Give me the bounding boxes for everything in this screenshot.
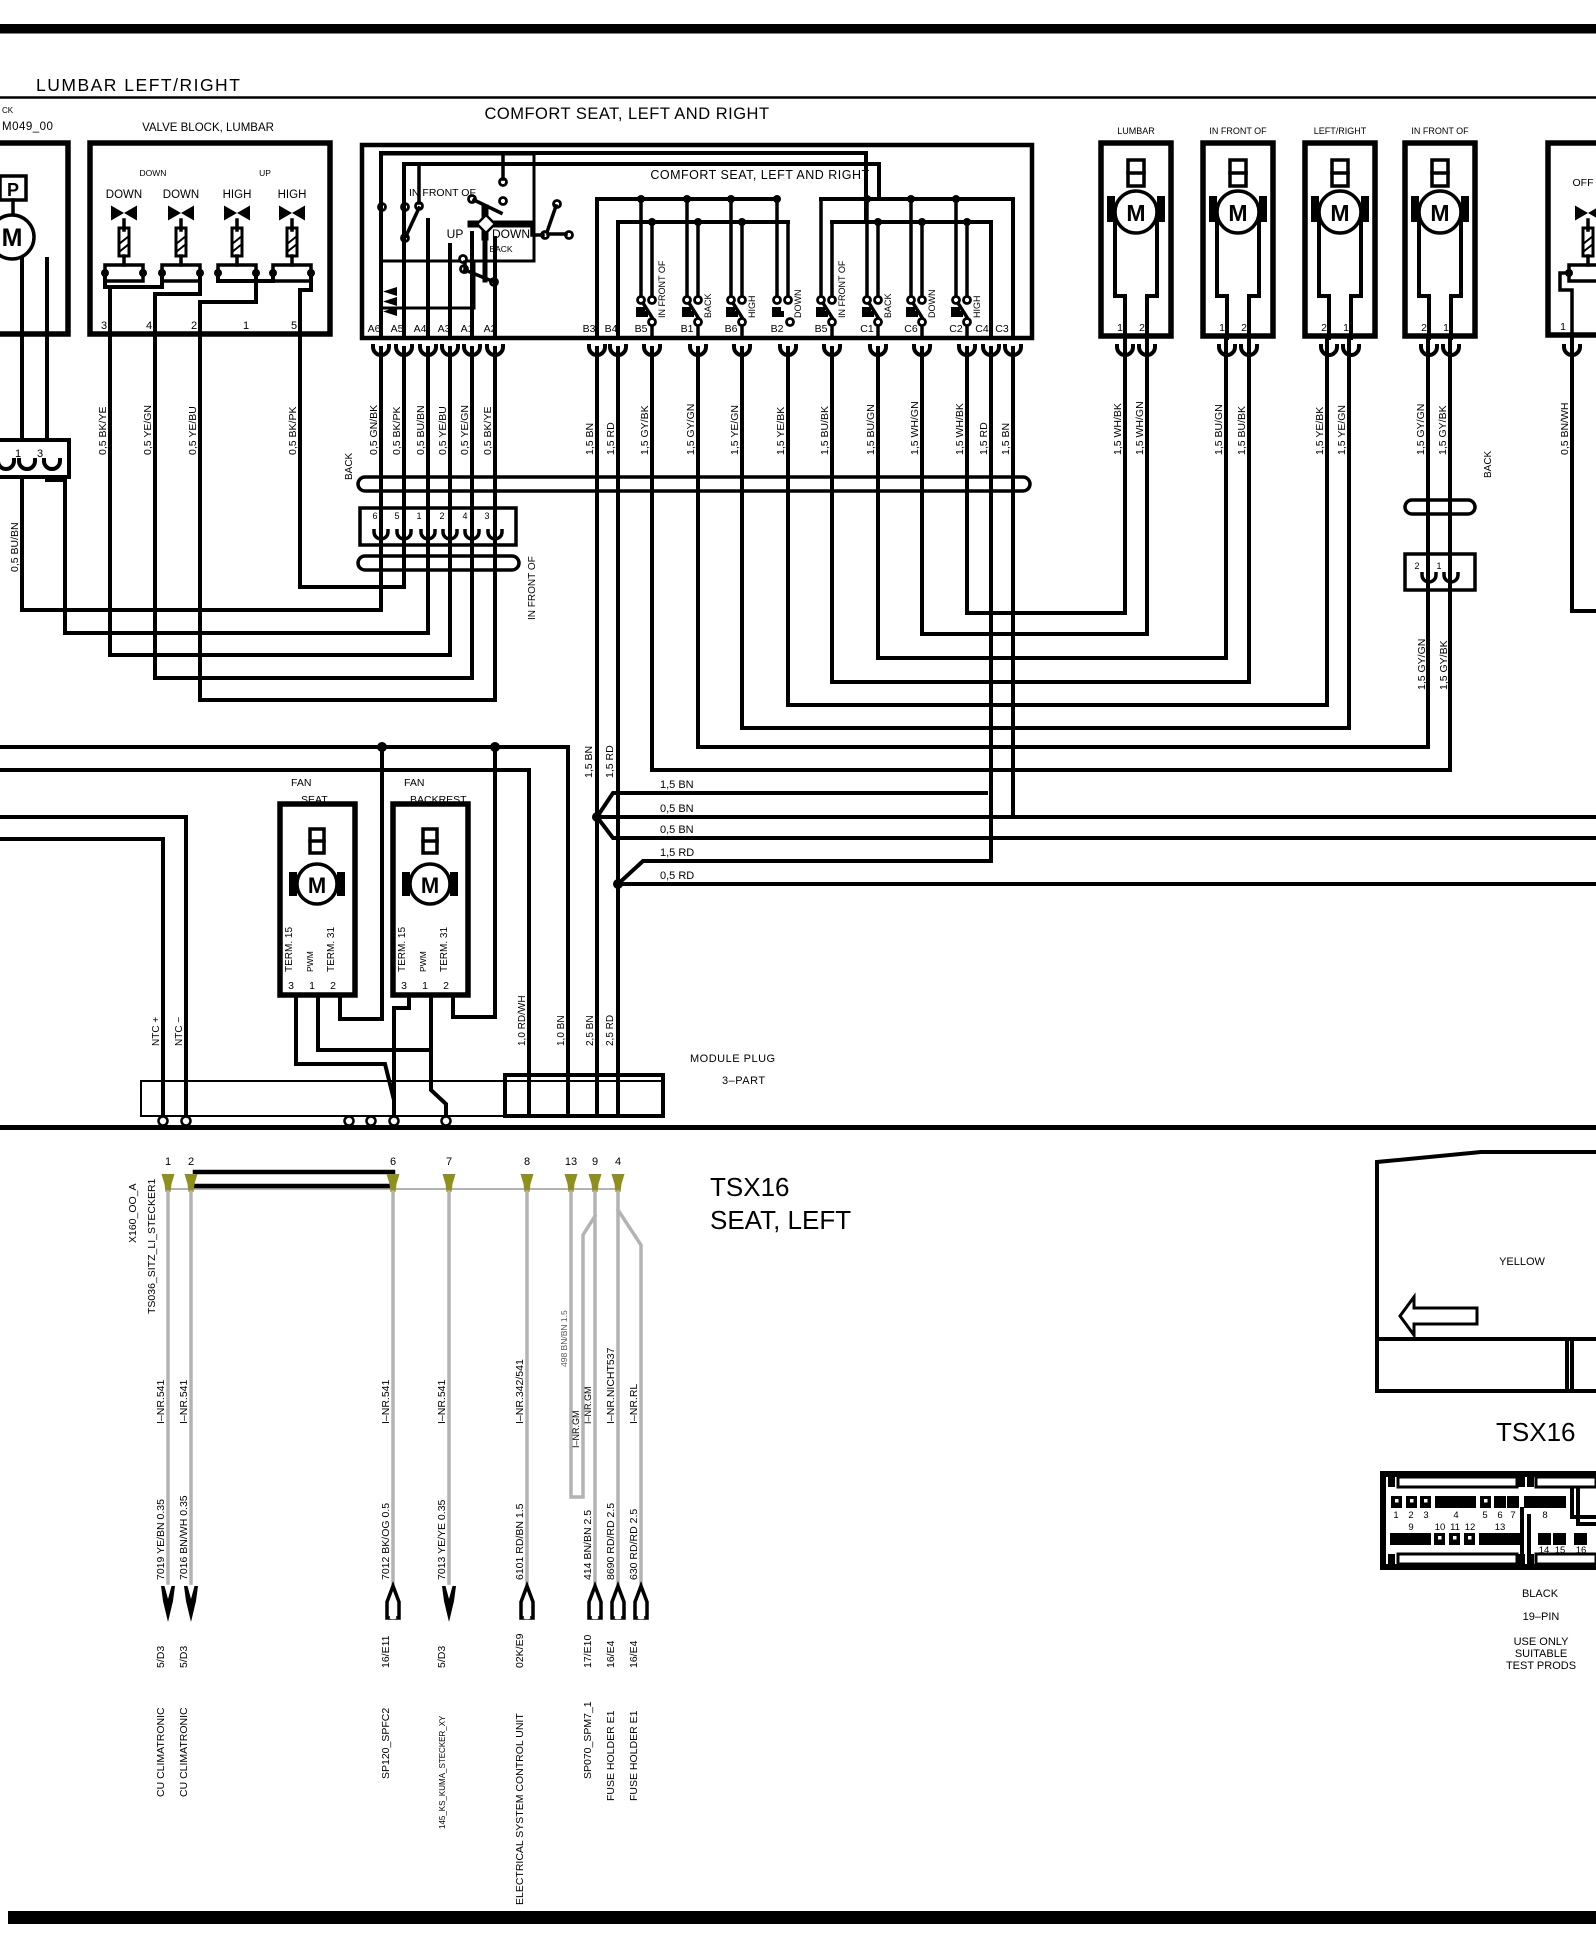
label 0,5 YE/BU (187, 406, 199, 455)
svg-text:A3: A3 (438, 323, 451, 335)
19-pin pins 14-16 (1538, 1533, 1587, 1556)
svg-text:1,5 BU/GN: 1,5 BU/GN (1213, 404, 1225, 455)
label DOWN (492, 227, 530, 241)
wire A6 column in box (379, 153, 383, 338)
svg-text:9: 9 (1408, 1522, 1413, 1533)
wire X160 pin8 (525, 1192, 529, 1583)
svg-text:0,5 BN: 0,5 BN (660, 803, 694, 815)
wire A4 vertical (426, 348, 430, 633)
rail A B-group (597, 197, 776, 201)
partial text CK (2, 106, 14, 115)
svg-text:5: 5 (394, 511, 399, 521)
svg-text:PWM: PWM (418, 951, 428, 972)
switch label HIGH (747, 296, 757, 319)
motor unit M4 LEFT/RIGHT (1305, 126, 1375, 338)
wire B3 column in box (595, 199, 599, 338)
connector label 16/E11 at 389 (380, 1635, 392, 1668)
svg-text:16/E11: 16/E11 (380, 1635, 392, 1668)
svg-text:1: 1 (422, 980, 428, 992)
label 0,5 BK/PK (287, 407, 299, 455)
label 0,5 BU/BN (9, 522, 21, 572)
switch S-BACK (682, 297, 702, 339)
svg-text:SP120_SPFC2: SP120_SPFC2 (380, 1708, 392, 1779)
label I–NR.541 at 445 (436, 1379, 448, 1424)
connector label 02K/E9 at 523 (514, 1633, 526, 1668)
label BLACK (1522, 1588, 1559, 1600)
19-pin row2 numbers (1408, 1522, 1505, 1533)
switch stub wires pin HIGH (952, 195, 971, 296)
switch label IN FRONT OF (837, 260, 847, 318)
svg-text:X160_OO_A: X160_OO_A (127, 1183, 139, 1243)
top border bar (0, 24, 1596, 34)
svg-text:15: 15 (1555, 1545, 1566, 1556)
wire B2 1,5 YE/BK to motor3 pin2 (788, 348, 1327, 705)
wire X160 pin9 (593, 1192, 597, 1583)
label I–NR.541 at 389 (380, 1379, 392, 1424)
svg-text:0,5 BK/YE: 0,5 BK/YE (482, 407, 494, 455)
valve ladder link r3L-r4L (218, 273, 273, 281)
svg-text:498 BN/BN 1.5: 498 BN/BN 1.5 (559, 1310, 569, 1367)
svg-text:2: 2 (1421, 322, 1427, 334)
valve V3 HIGH (214, 189, 260, 281)
joystick pivot cross (471, 208, 543, 280)
wire 0,5 BN/WH (1572, 338, 1596, 611)
label 0,5 BK/PK A5 (391, 407, 403, 455)
svg-text:9: 9 (592, 1156, 598, 1168)
svg-text:0,5 BU/BN: 0,5 BU/BN (415, 405, 427, 455)
valve ladder link pin2-r3R (200, 273, 256, 334)
svg-text:1,5 BN: 1,5 BN (583, 746, 595, 778)
svg-text:11: 11 (1450, 1522, 1460, 1533)
destination label CU CLIMATRONIC at 187 (178, 1707, 190, 1797)
label 1,5 BU/GN C1 (865, 404, 877, 455)
wire X160 pin2 (189, 1192, 193, 1583)
svg-text:12: 12 (1465, 1522, 1476, 1533)
wire NTC minus (0, 817, 186, 1116)
svg-text:A4: A4 (414, 323, 427, 335)
wire fan seat TERM31 link (340, 995, 382, 1019)
wire motor2 pin1 1,5 BU/GN (1224, 338, 1228, 658)
svg-text:630 RD/RD 2.5: 630 RD/RD 2.5 (628, 1509, 640, 1580)
switch S-IN FRONT OF (636, 297, 656, 339)
svg-text:0,5 BK/PK: 0,5 BK/PK (391, 407, 403, 455)
svg-text:1,5 BN: 1,5 BN (1000, 423, 1012, 455)
pump unit box (clipped) (0, 143, 68, 334)
label 1,5 BN branch (660, 779, 694, 791)
switch S-DOWN (772, 297, 794, 326)
valve ladder link pin4-r2R (155, 273, 200, 334)
19-pin connector face (1383, 1474, 1596, 1567)
connector label 5/D3 at 164 (155, 1646, 167, 1668)
label 1,5 GY/BK (1437, 405, 1449, 455)
svg-text:1,5 GY/GN: 1,5 GY/GN (1415, 404, 1427, 455)
label 1,5 BN mid (583, 746, 595, 778)
terminal arrow at 168 (161, 1586, 175, 1622)
svg-text:2: 2 (1321, 322, 1327, 334)
label IN FRONT OF pill (527, 556, 538, 620)
svg-text:2: 2 (443, 980, 449, 992)
svg-text:TEST PRODS: TEST PRODS (1506, 1660, 1576, 1672)
motor unit M2 LUMBAR (1101, 126, 1171, 338)
label 1,5 GY/BK B5 (639, 405, 651, 455)
wire label 630 RD/RD 2.5 (628, 1509, 640, 1580)
svg-text:14: 14 (1539, 1545, 1550, 1556)
destination label CU CLIMATRONIC at 164 (155, 1707, 167, 1797)
joystick inner frame upper (381, 154, 534, 261)
svg-text:0,5 YE/GN: 0,5 YE/GN (459, 405, 471, 455)
svg-text:B5: B5 (815, 323, 828, 335)
svg-text:8: 8 (1542, 1510, 1547, 1521)
label BACK joystick (489, 244, 512, 254)
svg-text:IN FRONT OF: IN FRONT OF (1209, 126, 1267, 136)
svg-text:8690 RD/RD 2.5: 8690 RD/RD 2.5 (605, 1503, 617, 1580)
svg-text:BACK: BACK (489, 244, 512, 254)
svg-text:19–PIN: 19–PIN (1523, 1611, 1560, 1623)
svg-text:414 BN/BN 2.5: 414 BN/BN 2.5 (582, 1510, 594, 1580)
horizontal rule under title (0, 96, 1596, 99)
wire motor1 pin1 1,5 WH/BK (1123, 338, 1127, 613)
label 1,5 BU/BK B5b (819, 406, 831, 455)
svg-text:2,5 BN: 2,5 BN (585, 1015, 596, 1046)
svg-text:M: M (2, 224, 23, 252)
svg-text:1: 1 (1436, 561, 1441, 571)
label 0,5 BK/YE A2 (482, 407, 494, 455)
wire label 414 BN/BN 2.5 (582, 1510, 594, 1580)
switch label DOWN (793, 290, 803, 319)
svg-text:COMFORT SEAT, LEFT AND RIGHT: COMFORT SEAT, LEFT AND RIGHT (650, 168, 869, 182)
svg-text:1,0 BN: 1,0 BN (556, 1015, 567, 1046)
label 1,5 BN B3 (584, 423, 596, 455)
wire X160 pin13 loop (571, 1192, 595, 1497)
wire motor1 pin2 1,5 WH/GN (1145, 338, 1149, 634)
connector sockets motor M3 (1219, 344, 1257, 355)
svg-text:HIGH: HIGH (278, 189, 307, 201)
svg-text:DOWN: DOWN (492, 227, 530, 241)
wire 0,5 YE/GN (153, 334, 157, 678)
label 1,5 BU/GN (1213, 404, 1225, 455)
wire 0,5 YE/BU (198, 334, 202, 700)
wire fan backrest TERM15 (394, 995, 409, 1100)
switch label BACK (883, 293, 893, 318)
wire pump pin1 (20, 259, 24, 440)
wire X160 pin1 (166, 1192, 170, 1583)
svg-text:1: 1 (1443, 322, 1449, 334)
label I–NR.541 at 187 (178, 1379, 190, 1424)
junction B4 bundle (613, 879, 623, 889)
joystick contact circles (379, 179, 573, 286)
svg-text:2: 2 (330, 980, 336, 992)
joystick inner frame lower (381, 261, 474, 308)
label TSX16 main (710, 1172, 790, 1202)
svg-text:13: 13 (1495, 1522, 1506, 1533)
svg-text:1,5 YE/BK: 1,5 YE/BK (775, 407, 787, 455)
svg-text:1,5 GY/GN: 1,5 GY/GN (685, 404, 697, 455)
wire fan seat TERM15 (296, 995, 394, 1116)
label 0,5 GN/BK (368, 405, 380, 455)
svg-text:1,5 RD: 1,5 RD (978, 422, 990, 455)
label X160_OO_A (127, 1183, 139, 1243)
bottom pin numbers (165, 1156, 621, 1168)
connector sockets motor M4 (1321, 344, 1359, 355)
svg-text:BACK: BACK (703, 293, 713, 318)
svg-text:M: M (421, 873, 439, 898)
wire 0,5 BK/YE (108, 334, 112, 655)
svg-text:I–NR.541: I–NR.541 (436, 1379, 448, 1424)
rail C C-group (821, 197, 1013, 201)
label MODULE PLUG (690, 1053, 776, 1065)
wire pump pin3 to A4 (47, 477, 428, 633)
wire C4 1,5 RD (989, 348, 993, 861)
svg-text:3: 3 (401, 980, 407, 992)
small label UP (259, 168, 271, 178)
label 1,5 RD C4 (978, 422, 990, 455)
label 1,5 RD mid (604, 745, 616, 778)
wire B3 1,5 BN (595, 348, 599, 817)
wire NTC plus (0, 839, 163, 1116)
rail D C-group (832, 220, 991, 224)
label 2,5 BN (585, 1015, 596, 1046)
terminal arrow at 595 (589, 1586, 601, 1619)
svg-text:DOWN: DOWN (927, 290, 937, 319)
label I-NR.RL (628, 1384, 640, 1424)
label 1,5 GY/GN lower (1416, 639, 1428, 690)
svg-text:7019 YE/BN 0.35: 7019 YE/BN 0.35 (155, 1499, 167, 1580)
label I-NR.NICHT537 (605, 1347, 617, 1424)
svg-text:16: 16 (1576, 1545, 1587, 1556)
valve ladder link r1L-pin3 (105, 273, 110, 334)
destination label 145_KS_KUMA_STECKER_XY at 445 (438, 1715, 447, 1829)
svg-text:16/E4: 16/E4 (628, 1640, 640, 1668)
wire 2,5 BN to module plug (595, 817, 599, 1116)
switch stub wires pin BACK (863, 195, 882, 296)
wire 0,5 BN branch 1 (597, 815, 1596, 819)
wire X160 pin7 (447, 1192, 451, 1583)
svg-text:6101 RD/BN 1.5: 6101 RD/BN 1.5 (514, 1503, 526, 1580)
bus wire L1 (381, 153, 866, 222)
connector socket OFF valve (1564, 344, 1580, 355)
svg-text:C4: C4 (975, 323, 989, 335)
svg-text:5: 5 (291, 320, 297, 332)
svg-text:02K/E9: 02K/E9 (514, 1633, 526, 1668)
svg-text:6: 6 (1497, 1510, 1502, 1521)
svg-text:M: M (1330, 200, 1349, 226)
module plug strip (141, 1081, 663, 1116)
svg-text:2: 2 (191, 320, 197, 332)
svg-text:3–PART: 3–PART (722, 1075, 766, 1087)
small label DOWN (140, 168, 167, 178)
label BACK right (1483, 450, 1494, 478)
wire A5 column in box (402, 164, 406, 338)
svg-text:1,5 YE/BK: 1,5 YE/BK (1314, 407, 1326, 455)
terminal arrow at 449 (442, 1586, 456, 1622)
19-pin row1 numbers (1393, 1510, 1547, 1521)
wire A6 to pump pin1 (22, 348, 381, 610)
svg-text:1: 1 (165, 1156, 171, 1168)
svg-text:I–NR.RL: I–NR.RL (628, 1384, 640, 1424)
label 0,5 BN branch 1 (660, 803, 694, 815)
connector label 5/D3 at 445 (436, 1646, 448, 1668)
svg-text:I–NR.NICHT537: I–NR.NICHT537 (605, 1347, 617, 1424)
svg-text:10: 10 (1435, 1522, 1446, 1533)
connector label 16/E4 at 614 (605, 1640, 617, 1668)
switch label DOWN (927, 290, 937, 319)
svg-text:3: 3 (288, 980, 294, 992)
label 1,5 WH/BK C2 (954, 403, 966, 455)
svg-text:1,5 GY/BK: 1,5 GY/BK (1438, 640, 1450, 690)
switch stub wires pin DOWN (773, 195, 788, 296)
bus wire to fans TERM31 / 1,0 BN (0, 742, 568, 1116)
label 1,5 GY/GN B1 (685, 404, 697, 455)
switch stub wires pin IN FRONT OF (821, 199, 832, 296)
svg-text:4: 4 (615, 1156, 621, 1168)
label 0,5 BN branch 2 (660, 824, 694, 836)
switch S-IN FRONT OF (816, 297, 836, 339)
svg-text:B2: B2 (771, 323, 784, 335)
valve block pin numbers (101, 320, 297, 332)
svg-text:PWM: PWM (305, 951, 315, 972)
label 1,5 GY/BK lower (1438, 640, 1450, 690)
label NTC minus (174, 1017, 185, 1046)
valve unit OFF box (clipped) (1548, 143, 1596, 335)
separator bar (0, 1125, 1596, 1130)
bottom pin terminals (162, 1174, 625, 1192)
label 1,5 BU/BK (1236, 406, 1248, 455)
fan motor unit SEAT (280, 777, 355, 995)
svg-text:0,5 BN: 0,5 BN (660, 824, 694, 836)
svg-text:1,5 RD: 1,5 RD (605, 422, 617, 455)
svg-text:7: 7 (446, 1156, 452, 1168)
label TSX16 right (1496, 1417, 1576, 1447)
destination label FUSE HOLDER E1 at 637 (628, 1710, 640, 1801)
terminal arrow at 191 (184, 1586, 198, 1622)
valve ladder link r1-r2 (105, 273, 162, 287)
svg-text:1,5 BU/GN: 1,5 BU/GN (865, 404, 877, 455)
svg-text:DOWN: DOWN (163, 189, 199, 201)
direction arrow (1400, 1297, 1477, 1335)
svg-text:CK: CK (2, 106, 14, 115)
wire X160 pin4 (616, 1192, 620, 1583)
svg-text:13: 13 (565, 1156, 577, 1168)
label BACK upper (344, 452, 355, 480)
bus wire 1,0 RD/WH (0, 770, 529, 1116)
junction B3 bundle (592, 812, 602, 822)
label I–NR.541 at 164 (155, 1379, 167, 1424)
wire label 7019 YE/BN 0.35 (155, 1499, 167, 1580)
connector sockets motor M2 (1117, 344, 1155, 355)
wire 1,5 RD branch (618, 861, 991, 884)
label 1,5 RD B4 (605, 422, 617, 455)
cable sheath BACK right (1405, 500, 1475, 514)
wire 0,5 BN branch 2 (597, 817, 1596, 838)
svg-text:2: 2 (1139, 322, 1145, 334)
bottom border bar (8, 1911, 1596, 1924)
wire B1 1,5 GY/GN to motor4 pin2 (698, 348, 1428, 747)
svg-text:IN FRONT OF: IN FRONT OF (657, 260, 667, 318)
cable sheath BACK upper (358, 477, 1030, 491)
svg-text:5/D3: 5/D3 (436, 1646, 448, 1668)
svg-text:1,5 WH/BK: 1,5 WH/BK (954, 403, 966, 455)
joystick linkage arrows (383, 287, 397, 316)
svg-text:SUITABLE: SUITABLE (1515, 1648, 1567, 1660)
svg-text:0,5 BK/YE: 0,5 BK/YE (97, 407, 109, 455)
cable sheath IN FRONT OF lower (358, 556, 519, 570)
svg-text:6: 6 (372, 511, 377, 521)
grey connector rail (168, 1188, 618, 1190)
svg-text:TERM. 31: TERM. 31 (326, 927, 337, 972)
label 498 BN/BN 1.5 (559, 1310, 569, 1367)
svg-text:I–NR.GM: I–NR.GM (583, 1386, 593, 1424)
svg-text:LEFT/RIGHT: LEFT/RIGHT (1314, 126, 1367, 136)
wire B6 1,5 YE/GN to motor3 pin1 (742, 348, 1349, 728)
wire 2,5 RD to module plug (616, 884, 620, 1116)
svg-text:M: M (1430, 200, 1449, 226)
svg-text:7012 BK/OG 0.5: 7012 BK/OG 0.5 (380, 1503, 392, 1580)
svg-text:1,5 WH/GN: 1,5 WH/GN (909, 401, 921, 455)
svg-text:IN FRONT OF: IN FRONT OF (527, 556, 538, 620)
terminal arrow at 527 (521, 1586, 533, 1619)
wire A1 to 0,5 YE/GN (155, 348, 472, 678)
label SEAT, LEFT (710, 1205, 851, 1235)
svg-text:FUSE HOLDER E1: FUSE HOLDER E1 (628, 1710, 640, 1801)
svg-text:M049_00: M049_00 (2, 121, 53, 133)
motor unit M3 IN FRONT OF (1203, 126, 1273, 338)
svg-text:DOWN: DOWN (106, 189, 142, 201)
wire fan seat PWM (318, 995, 431, 1050)
svg-text:B6: B6 (725, 323, 738, 335)
label 1,5 YE/BK B2 (775, 407, 787, 455)
label 0,5 RD branch (660, 870, 694, 882)
label I–NR.342/541 at 523 (514, 1359, 526, 1424)
label NTC plus (151, 1017, 162, 1046)
svg-text:0,5 BK/PK: 0,5 BK/PK (287, 407, 299, 455)
label 1,5 RD branch (660, 847, 694, 859)
label VALVE BLOCK LUMBAR (142, 122, 274, 134)
wire motor3 pin2 1,5 YE/BK (1325, 338, 1329, 705)
wire C4 column in box (989, 222, 993, 338)
svg-text:NTC −: NTC − (174, 1017, 185, 1046)
svg-text:5/D3: 5/D3 (178, 1646, 190, 1668)
label 1,0 RD/WH (517, 995, 528, 1046)
svg-text:1,5 WH/BK: 1,5 WH/BK (1112, 403, 1124, 455)
bus wire L2 (404, 164, 879, 199)
svg-text:FAN: FAN (404, 777, 424, 789)
wire C3 column in box (1011, 199, 1015, 338)
svg-text:8: 8 (524, 1156, 530, 1168)
black jumper bar pins 2-6 (195, 1172, 393, 1186)
destination label SP070_SPM7_1 at 591 (582, 1701, 594, 1779)
svg-text:1: 1 (416, 511, 421, 521)
wire A1 column in box (470, 233, 474, 338)
valve V2 DOWN (158, 189, 204, 281)
svg-text:I–NR.GM: I–NR.GM (571, 1410, 581, 1448)
svg-text:1,5 BN: 1,5 BN (660, 779, 694, 791)
joystick levers (406, 200, 556, 281)
svg-text:1,5 GY/BK: 1,5 GY/BK (639, 405, 651, 455)
svg-text:DOWN: DOWN (140, 168, 167, 178)
svg-text:1: 1 (1393, 1510, 1398, 1521)
svg-text:COMFORT SEAT, LEFT AND RIGHT: COMFORT SEAT, LEFT AND RIGHT (484, 105, 769, 123)
svg-text:M: M (1228, 200, 1247, 226)
connector view outline top (1377, 1152, 1596, 1391)
rail B B-group (618, 220, 788, 224)
label 0,5 YE/GN (142, 405, 154, 455)
wire X160 pin6 (391, 1192, 395, 1583)
valve ladder link r4R-pin5 (300, 273, 311, 334)
switch S-DOWN (906, 297, 926, 339)
svg-text:3: 3 (1423, 1510, 1428, 1521)
terminal arrow at 393 (387, 1586, 399, 1619)
wire fan seat TERM31 riser (380, 747, 384, 1019)
